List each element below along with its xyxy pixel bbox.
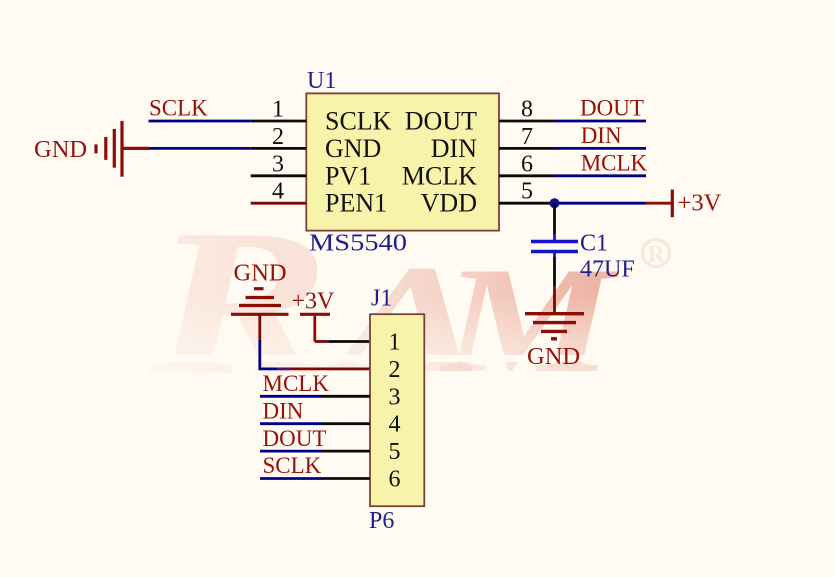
- svg-text:U1: U1: [307, 68, 336, 94]
- svg-text:MS5540: MS5540: [309, 231, 407, 257]
- pin 5 VDD stub: [499, 202, 555, 205]
- svg-text:VDD: VDD: [421, 189, 477, 218]
- svg-text:6: 6: [521, 151, 533, 177]
- svg-text:MCLK: MCLK: [581, 150, 648, 175]
- svg-text:DOUT: DOUT: [405, 107, 477, 136]
- wire GND to J1 pin2: [260, 367, 277, 370]
- svg-text:DOUT: DOUT: [263, 426, 327, 451]
- svg-text:P6: P6: [369, 508, 394, 534]
- svg-text:1: 1: [272, 97, 284, 123]
- power port GND left: [96, 121, 149, 177]
- wire pin6 MCLK: [555, 174, 647, 177]
- wire DIN to J1 pin4: [260, 422, 322, 425]
- svg-text:GND: GND: [34, 136, 87, 163]
- svg-text:5: 5: [389, 439, 401, 465]
- svg-text:DOUT: DOUT: [580, 96, 644, 121]
- ground symbol bottom-left (inverted): [231, 289, 289, 315]
- wire GND to pin2: [149, 147, 251, 150]
- svg-text:SCLK: SCLK: [325, 107, 392, 136]
- svg-text:8: 8: [521, 97, 533, 123]
- pin 1 SCLK stub: [251, 120, 307, 123]
- wire DOUT to J1 pin5: [260, 450, 322, 453]
- node VDD junction: [550, 198, 560, 208]
- capacitor C1: [531, 242, 578, 252]
- power port +3V right bar: [671, 190, 674, 218]
- svg-text:GND: GND: [527, 343, 580, 370]
- svg-text:7: 7: [521, 124, 533, 150]
- svg-text:2: 2: [272, 124, 284, 150]
- wire MCLK to J1 pin3: [260, 395, 322, 398]
- svg-text:PEN1: PEN1: [325, 189, 387, 218]
- wire SCLK to pin1: [149, 120, 251, 123]
- svg-text:SCLK: SCLK: [263, 453, 322, 478]
- IC U1 body (MS5540): [306, 93, 499, 230]
- watermark registered mark: [643, 240, 670, 267]
- svg-text:+3V: +3V: [292, 289, 336, 315]
- watermark fade: [130, 295, 690, 374]
- pin 2 GND stub: [251, 147, 307, 150]
- power port +3V bottom bar: [300, 313, 330, 316]
- svg-text:PV1: PV1: [325, 161, 371, 190]
- pin 7 DIN stub: [499, 147, 555, 150]
- svg-text:3: 3: [272, 151, 284, 177]
- svg-text:J1: J1: [371, 286, 392, 312]
- wire pin7 DIN: [555, 147, 647, 150]
- connector J1 body: [370, 314, 424, 506]
- wire pin5 VDD to +3V: [555, 202, 646, 205]
- svg-text:DIN: DIN: [263, 398, 304, 423]
- svg-text:MCLK: MCLK: [263, 371, 330, 396]
- svg-text:SCLK: SCLK: [149, 96, 208, 121]
- watermark white stripe: [130, 355, 690, 362]
- wire C1 to ground: [553, 252, 556, 258]
- svg-text:5: 5: [521, 179, 533, 205]
- svg-text:3: 3: [389, 384, 401, 410]
- wire VDD node down to C1: [553, 203, 556, 234]
- pin 3 PV1 stub: [251, 174, 307, 177]
- svg-text:4: 4: [272, 179, 284, 205]
- svg-text:GND: GND: [325, 134, 381, 163]
- wire +3V down and to J1 pin1: [313, 314, 316, 341]
- pin 4 PEN1 stub: [251, 202, 307, 205]
- svg-text:1: 1: [389, 330, 401, 356]
- svg-text:4: 4: [389, 412, 401, 438]
- svg-text:2: 2: [389, 357, 401, 383]
- watermark RAM logo: [149, 187, 620, 419]
- wire SCLK to J1 pin6: [260, 477, 322, 480]
- ground symbol below C1: [525, 314, 584, 339]
- svg-text:DIN: DIN: [431, 134, 477, 163]
- svg-text:GND: GND: [234, 260, 287, 287]
- wire pin8 DOUT: [555, 120, 647, 123]
- svg-text:DIN: DIN: [581, 123, 622, 148]
- svg-text:R: R: [648, 242, 665, 267]
- pin 8 DOUT stub: [499, 120, 555, 123]
- svg-text:+3V: +3V: [678, 190, 722, 217]
- svg-text:MCLK: MCLK: [402, 161, 477, 190]
- svg-text:6: 6: [389, 467, 401, 493]
- pin 6 MCLK stub: [499, 174, 555, 177]
- svg-text:47UF: 47UF: [580, 257, 635, 283]
- svg-text:C1: C1: [580, 231, 608, 257]
- wire bottom GND down: [258, 314, 261, 341]
